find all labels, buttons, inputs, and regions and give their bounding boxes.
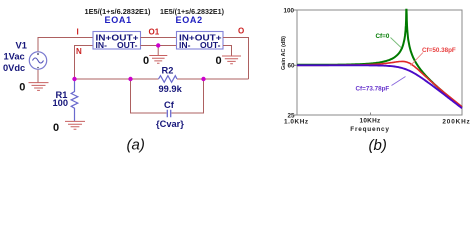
y tick 100 — [294, 9, 298, 11]
wire Cf loop — [131, 79, 204, 113]
ground under V1 — [29, 83, 49, 91]
svg-text:O: O — [238, 27, 244, 36]
svg-text:60: 60 — [287, 63, 295, 70]
curve Cf=50.38pF red — [297, 61, 462, 106]
wire EOA1 OUT+ to EOA2 IN+ — [141, 37, 177, 39]
svg-text:(a): (a) — [127, 137, 145, 154]
svg-text:O1: O1 — [149, 28, 160, 37]
leader purple — [392, 77, 406, 86]
junction dot EOA1 OUT- — [156, 43, 160, 47]
svg-text:Cf=73.78pF: Cf=73.78pF — [356, 86, 390, 93]
svg-text:Cf: Cf — [164, 100, 175, 110]
y tick 60 — [294, 64, 298, 66]
svg-text:100: 100 — [53, 98, 69, 108]
leader red — [411, 53, 424, 66]
svg-text:100: 100 — [283, 8, 294, 15]
wire EOA1 IN- to node N — [75, 46, 94, 80]
svg-text:N: N — [76, 47, 82, 56]
svg-text:EOA2: EOA2 — [176, 15, 203, 25]
wire EOA2 OUT+ to node O and down — [223, 38, 249, 80]
svg-text:I: I — [77, 28, 79, 37]
wire EOA1 OUT- to EOA2 IN- — [141, 46, 177, 56]
y tick 25 — [294, 114, 298, 116]
svg-text:Cf=50.38pF: Cf=50.38pF — [422, 47, 456, 54]
op-amp EOA1 — [93, 32, 141, 50]
resistor R2 — [159, 76, 178, 83]
wire V1 top to EOA1 IN+ — [38, 38, 93, 53]
ground at EOA1 OUT- — [149, 56, 167, 64]
svg-text:EOA1: EOA1 — [105, 15, 132, 25]
svg-text:IN-: IN- — [179, 40, 191, 50]
svg-text:0Vdc: 0Vdc — [3, 63, 25, 73]
svg-text:V1: V1 — [16, 41, 27, 51]
svg-text:(b): (b) — [369, 137, 387, 154]
svg-text:0: 0 — [19, 82, 25, 94]
svg-text:0: 0 — [53, 122, 59, 134]
wire V1 bottom — [37, 70, 39, 83]
svg-text:OUT-: OUT- — [200, 40, 221, 50]
ground at EOA2 OUT- — [222, 56, 241, 64]
capacitor Cf — [167, 110, 170, 117]
plot frame — [297, 10, 462, 115]
junction Cf right — [201, 77, 205, 81]
wire bottom rail — [75, 78, 249, 80]
leader green — [391, 38, 402, 48]
svg-text:{Cvar}: {Cvar} — [156, 119, 184, 129]
svg-text:1Vac: 1Vac — [4, 52, 25, 62]
svg-text:Cf=0: Cf=0 — [376, 33, 390, 40]
svg-text:99.9k: 99.9k — [159, 84, 183, 94]
svg-text:10KHz: 10KHz — [359, 118, 380, 125]
ground under R1 — [65, 121, 85, 129]
svg-text:0: 0 — [216, 55, 222, 67]
svg-text:Frequency: Frequency — [350, 126, 390, 133]
junction node N on rail — [72, 77, 76, 81]
curve Cf=0 green — [297, 10, 462, 108]
wire EOA2 OUT- stub — [223, 46, 232, 56]
curve Cf=73.78pF purple — [297, 65, 462, 108]
svg-text:IN-: IN- — [96, 40, 108, 50]
junction Cf left — [128, 77, 132, 81]
op-amp EOA2 — [177, 32, 224, 50]
x tick 10KHz — [370, 113, 372, 116]
svg-text:R2: R2 — [162, 65, 174, 75]
resistor R1 — [71, 79, 78, 121]
svg-text:0: 0 — [143, 55, 149, 67]
svg-text:200KHz: 200KHz — [442, 118, 470, 125]
svg-text:OUT-: OUT- — [117, 40, 138, 50]
svg-text:Gain AC (dB): Gain AC (dB) — [281, 36, 287, 70]
svg-text:1.0KHz: 1.0KHz — [284, 118, 309, 125]
voltage source V1 — [29, 52, 46, 69]
